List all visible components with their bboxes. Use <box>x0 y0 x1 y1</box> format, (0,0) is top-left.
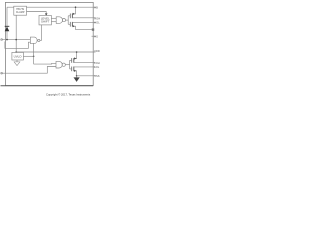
wire UVLO output <box>23 55 33 57</box>
node junction Q4-VSS <box>76 75 78 77</box>
transistor Q4 source arrow <box>74 70 76 72</box>
wire level shift to driver input A <box>51 17 56 19</box>
wire LI input <box>1 67 56 74</box>
wire low gate bus <box>69 60 71 69</box>
ground symbol low side <box>76 76 78 78</box>
gate U3 low-side driver <box>56 61 62 68</box>
wire riser HB box to VDD line <box>15 15 17 52</box>
pin labels right edge <box>94 5 100 78</box>
node VDD pin marker <box>1 39 3 41</box>
transistor Q3 source arrow <box>74 57 76 59</box>
wire feed arrowhead <box>45 13 48 15</box>
gate U3 bubble <box>62 63 65 66</box>
wire VDD pin stub left <box>1 39 30 41</box>
wire level shift to driver input B <box>51 21 56 23</box>
wire Q3 gate lead <box>70 59 72 61</box>
svg-text:VSS: VSS <box>94 74 99 78</box>
wire Q4 gate lead <box>70 68 72 70</box>
wire Q3 source up to VDD rail <box>74 52 77 59</box>
transistor Q1 gate plate <box>69 14 71 19</box>
transistor Q1 channel <box>71 14 73 19</box>
wire LOL net <box>74 66 96 68</box>
svg-text:HOH: HOH <box>94 16 100 20</box>
wire U3 output to gate bus <box>65 64 69 66</box>
svg-text:HS: HS <box>94 35 98 39</box>
wire HOL net <box>72 21 95 23</box>
wire Q1 source up to HB <box>72 7 75 14</box>
diode D1 bootstrap <box>5 27 10 32</box>
svg-text:LOH: LOH <box>94 61 99 65</box>
transistor Q2 channel <box>71 22 73 27</box>
wire VSS net <box>77 75 96 77</box>
wire UVLO to low gate input <box>34 62 56 65</box>
wire HS net <box>76 29 94 31</box>
ground symbol UVLO <box>16 60 18 62</box>
svg-text:VDD: VDD <box>94 49 100 53</box>
wire UVLO distribution vertical <box>33 43 35 64</box>
IC boundary box <box>5 2 93 85</box>
box LEVEL SHIFT <box>39 16 51 25</box>
transistor Q3 gate plate <box>71 58 73 63</box>
svg-text:UVLO: UVLO <box>14 55 23 59</box>
transistor Q3 channel <box>73 58 75 63</box>
wire VDD rail to low stage <box>16 51 95 53</box>
node junction Q1-HB <box>75 6 77 8</box>
wire HB net horizontal <box>7 6 96 8</box>
box HB CLAMP <box>14 6 27 15</box>
transistor Q2 source arrow <box>73 25 75 27</box>
svg-text:Copyright © 2017, Texas Instru: Copyright © 2017, Texas Instruments <box>46 92 91 96</box>
node junction Q3-VDD <box>76 51 78 53</box>
wire Q4 source down to VSS <box>74 71 77 76</box>
transistor Q4 gate plate <box>71 67 73 72</box>
wire diode riser <box>6 7 8 39</box>
wire HOH net <box>72 17 95 19</box>
svg-text:SHIFT: SHIFT <box>41 20 50 24</box>
wire high gate bus <box>67 16 69 24</box>
transistor Q1 source arrow <box>73 13 75 15</box>
node junction VDD-diode <box>6 39 8 41</box>
gate U1 AND high-side <box>30 37 37 44</box>
gate U1 bubble <box>38 39 40 41</box>
wire bottom border emphasis <box>1 85 94 87</box>
diode D1 cathode bar <box>5 25 10 27</box>
node junction riser-VDDrail <box>15 51 17 53</box>
svg-text:LOL: LOL <box>94 65 99 69</box>
node junction riser-VDD <box>15 39 17 41</box>
transistor Q2 gate plate <box>69 22 71 27</box>
wire U2 output to gate bus <box>66 19 69 21</box>
pin HS square <box>92 28 94 30</box>
node junction UVLO net <box>33 56 35 58</box>
node LI pin marker <box>1 72 3 74</box>
wire LOH net <box>74 61 96 63</box>
text in HB CLAMP box <box>16 8 25 14</box>
pin HS stub <box>92 35 96 37</box>
svg-text:CLAMP: CLAMP <box>16 11 25 14</box>
wire HI input <box>5 42 31 49</box>
gate U2 bubble <box>62 19 65 22</box>
transistor Q4 channel <box>73 67 75 72</box>
box UVLO <box>12 52 24 60</box>
svg-text:HOL: HOL <box>94 21 100 25</box>
wire Q2 gate lead <box>68 23 70 25</box>
wire Q1 gate lead <box>68 15 70 17</box>
gate U2 high-side driver <box>56 17 62 24</box>
wire Q2 source down to HS <box>72 26 75 29</box>
wire U1 output <box>40 25 42 41</box>
wire HB clamp feed to level shift <box>27 12 47 15</box>
svg-text:HB: HB <box>94 5 98 9</box>
